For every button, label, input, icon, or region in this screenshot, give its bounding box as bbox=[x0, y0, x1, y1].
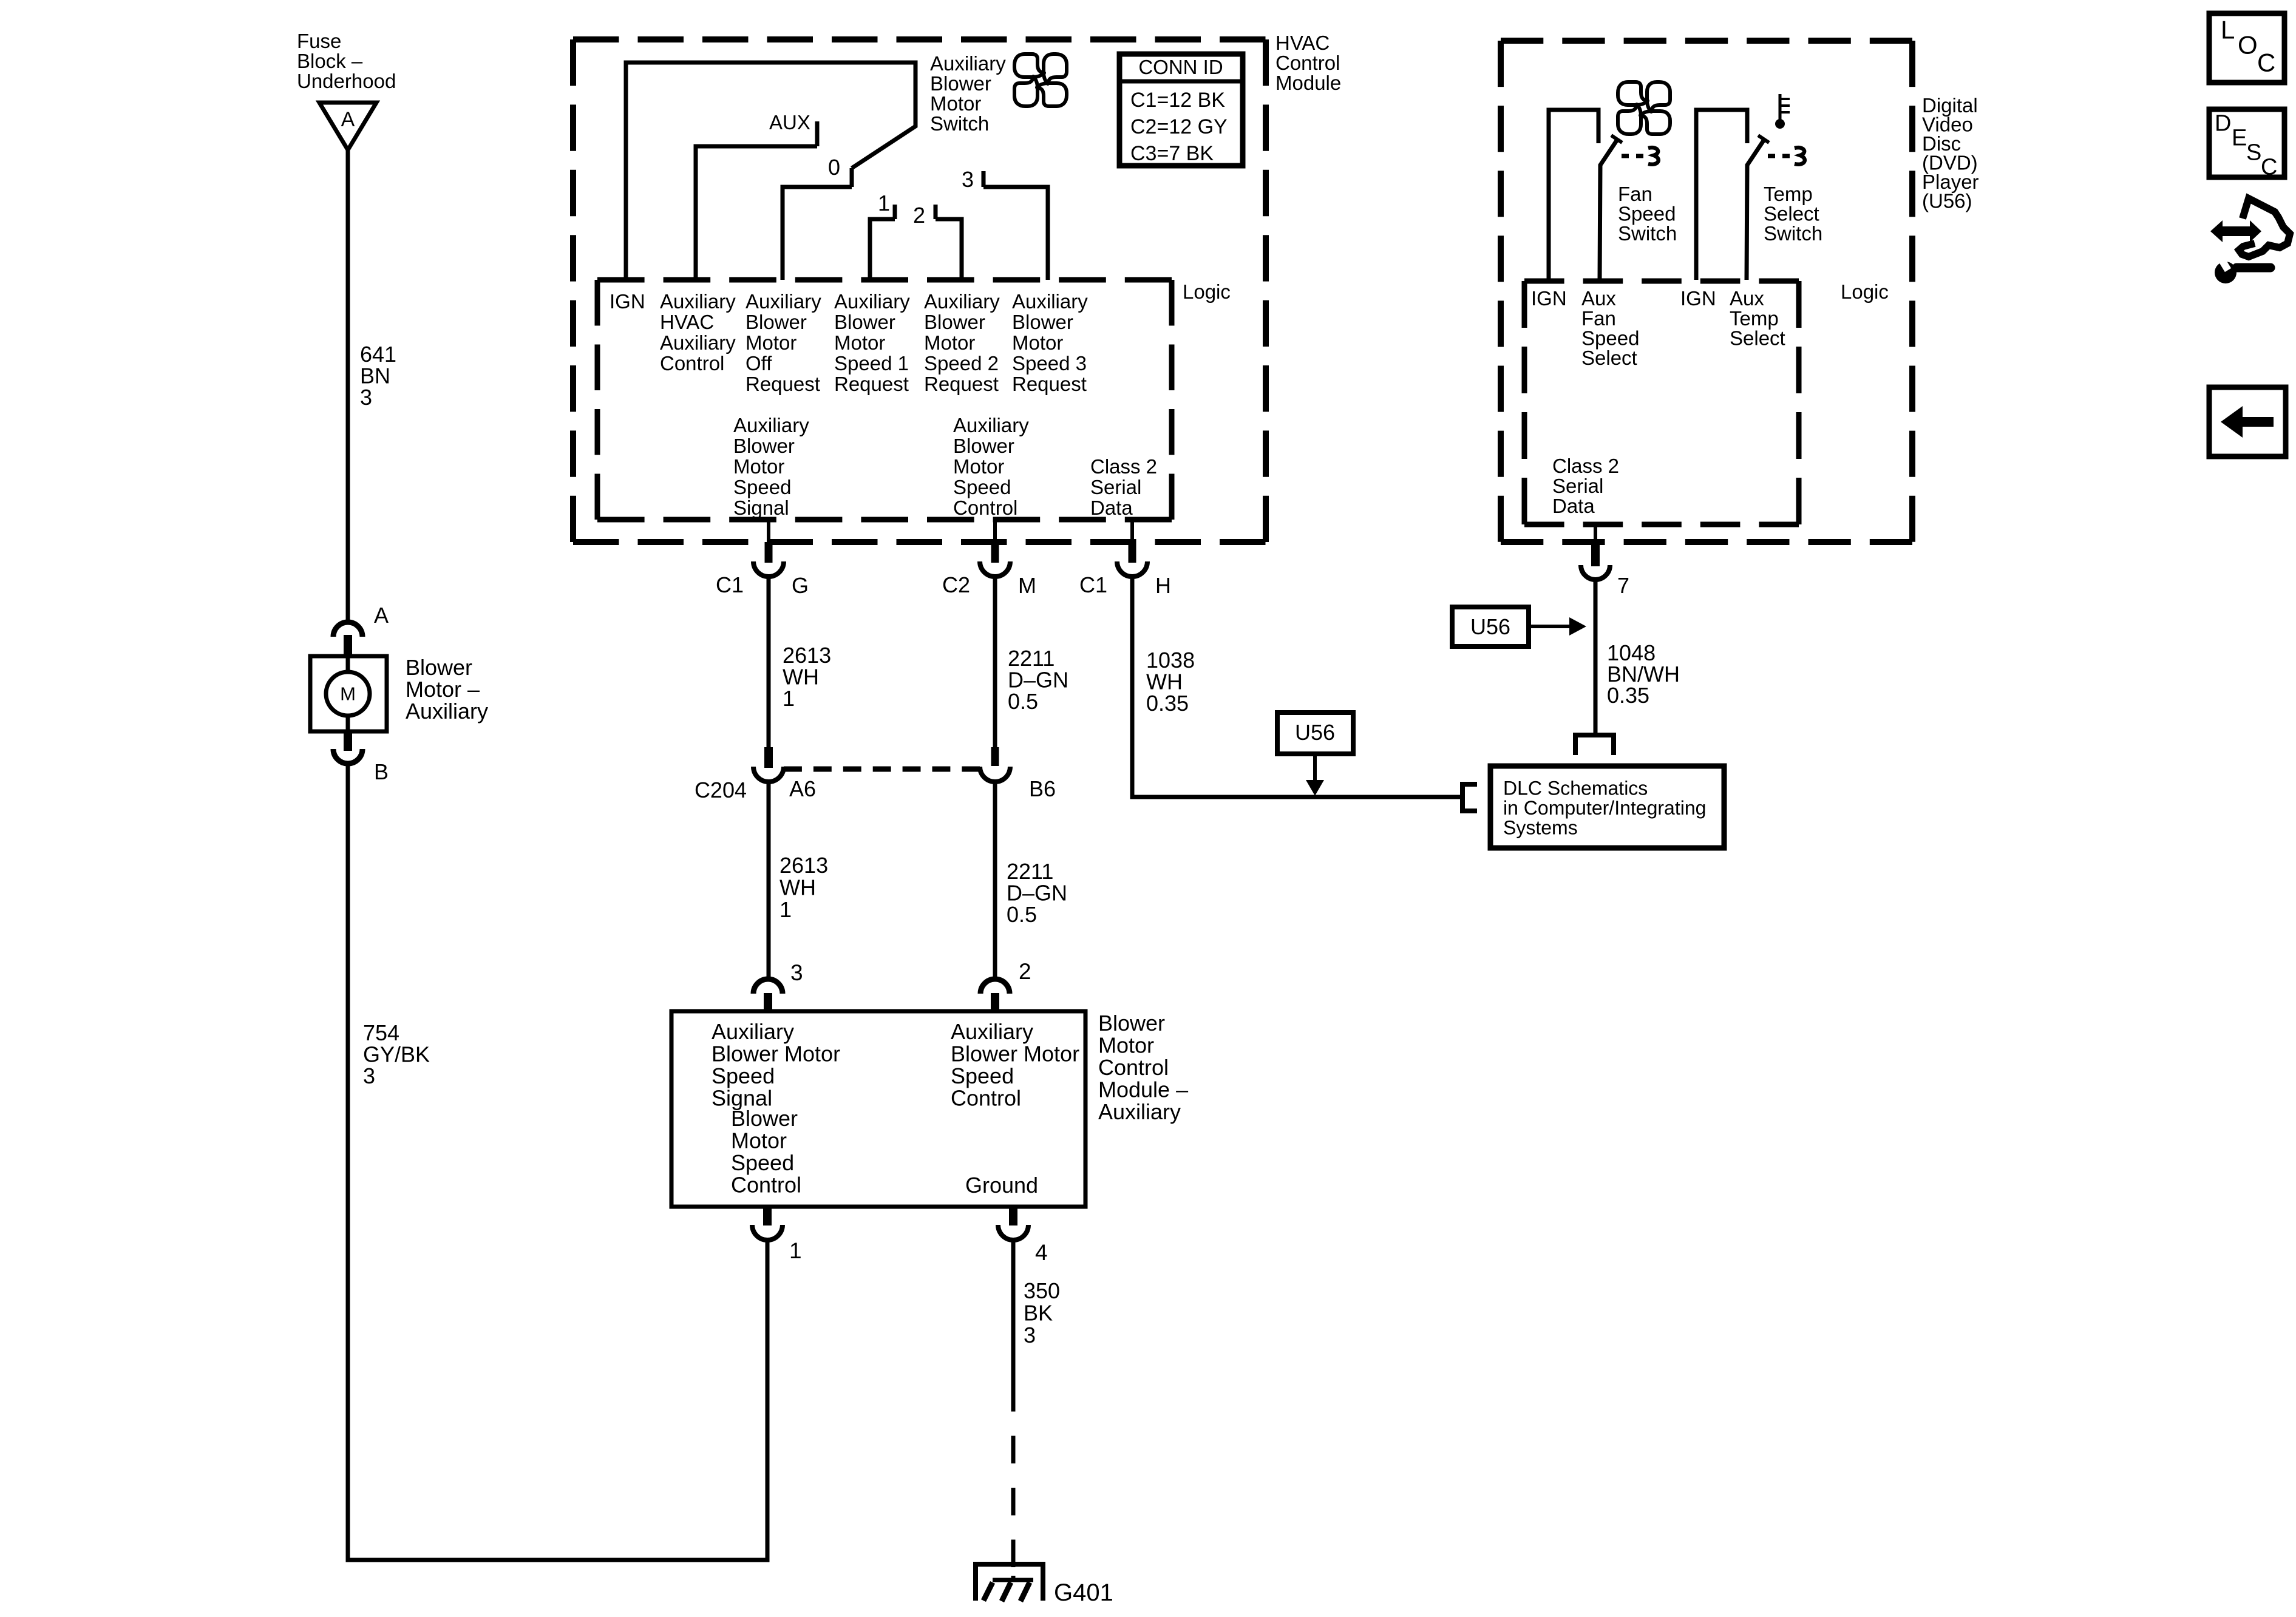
wire 2211 D-GN 0.5 from pin M to C204 B6 bbox=[993, 577, 997, 747]
logic block dashed box (DVD) bbox=[1524, 279, 1799, 284]
wire 641 BN 3 from fuse block to blower motor connector A bbox=[346, 150, 350, 623]
svg-text:AuxiliaryBlower MotorSpeedSign: AuxiliaryBlower MotorSpeedSignal bbox=[712, 1019, 840, 1111]
fan icon (auxiliary blower motor switch) bbox=[1014, 54, 1067, 106]
svg-text:FuseBlock –Underhood: FuseBlock –Underhood bbox=[297, 30, 396, 92]
HVAC pin C2-M (Auxiliary Blower Motor Speed Control) bbox=[942, 520, 1036, 598]
svg-text:Ground: Ground bbox=[965, 1173, 1038, 1198]
in-line connector C204 cavity A6 bbox=[753, 747, 784, 782]
svg-text:Class 2SerialData: Class 2SerialData bbox=[1090, 455, 1157, 519]
svg-text:3: 3 bbox=[790, 960, 803, 985]
svg-text:D: D bbox=[2215, 111, 2231, 137]
svg-text:AuxiliaryBlowerMotorOffRequest: AuxiliaryBlowerMotorOffRequest bbox=[746, 290, 821, 395]
svg-text:641BN3: 641BN3 bbox=[360, 342, 396, 410]
switch contact AUX bbox=[696, 121, 817, 280]
DVD pin 7 (Class 2 Serial Data) bbox=[1581, 523, 1610, 580]
logic block dashed box (HVAC) bbox=[597, 277, 1172, 283]
svg-text:Logic: Logic bbox=[1183, 280, 1231, 303]
DLC schematics reference box bbox=[1490, 766, 1724, 848]
connector B of blower motor bbox=[333, 731, 362, 764]
svg-text:C1: C1 bbox=[1079, 572, 1107, 597]
svg-text:C: C bbox=[2257, 49, 2275, 77]
power feed triangle A (Fuse Block - Underhood) bbox=[319, 103, 376, 150]
svg-text:C: C bbox=[2261, 155, 2277, 180]
module pin 1 connector bbox=[752, 1207, 783, 1240]
in-line connector C204 cavity B6 bbox=[980, 747, 1010, 782]
svg-text:1: 1 bbox=[789, 1238, 802, 1263]
svg-text:4: 4 bbox=[1035, 1240, 1048, 1265]
svg-text:U56: U56 bbox=[1470, 614, 1510, 639]
module pin 2 connector bbox=[980, 979, 1010, 1011]
svg-text:DigitalVideoDisc(DVD)Player(U5: DigitalVideoDisc(DVD)Player(U56) bbox=[1922, 94, 1979, 212]
service info icon (arrows and wrench) bbox=[2210, 198, 2290, 283]
svg-text:AuxiliaryBlower MotorSpeedCont: AuxiliaryBlower MotorSpeedControl bbox=[951, 1019, 1079, 1111]
wire 1048 BN/WH 0.35 from DVD pin 7 to DLC bbox=[1594, 580, 1598, 735]
connector A of blower motor bbox=[333, 622, 362, 656]
svg-text:A: A bbox=[341, 108, 355, 131]
svg-text:754GY/BK3: 754GY/BK3 bbox=[363, 1020, 430, 1088]
svg-text:S: S bbox=[2246, 140, 2261, 166]
svg-text:Logic: Logic bbox=[1841, 280, 1889, 303]
svg-text:IGN: IGN bbox=[1531, 287, 1567, 310]
blower motor - auxiliary M1 bbox=[310, 656, 387, 731]
fan icon (fan speed switch) bbox=[1618, 82, 1670, 134]
svg-text:2211D–GN0.5: 2211D–GN0.5 bbox=[1007, 859, 1067, 927]
HVAC pin C1-H (Class 2 Serial Data) bbox=[1079, 520, 1171, 598]
DLC bracket connector bbox=[1462, 784, 1477, 811]
U56 reference box (lower) bbox=[1277, 713, 1353, 754]
U56 arrow to wire 1048 bbox=[1529, 617, 1586, 636]
svg-text:7: 7 bbox=[1617, 573, 1629, 598]
svg-text:IGN: IGN bbox=[610, 290, 645, 313]
svg-text:E: E bbox=[2232, 126, 2247, 151]
CONN ID table bbox=[1119, 54, 1243, 166]
svg-text:Class 2SerialData: Class 2SerialData bbox=[1552, 455, 1619, 517]
U56 reference box (upper) bbox=[1452, 607, 1529, 646]
thermometer icon (temp select switch) bbox=[1775, 94, 1790, 129]
svg-text:2613WH1: 2613WH1 bbox=[783, 643, 831, 711]
DVD player dashed box (U56) bbox=[1501, 38, 1912, 44]
current return bracket into DLC bbox=[1575, 735, 1614, 755]
temp select switch S2 bbox=[1696, 110, 1769, 280]
svg-text:FanSpeedSwitch: FanSpeedSwitch bbox=[1618, 183, 1677, 245]
svg-text:C2: C2 bbox=[942, 572, 970, 597]
svg-text:AuxTempSelect: AuxTempSelect bbox=[1730, 287, 1785, 349]
svg-text:A6: A6 bbox=[789, 776, 816, 801]
svg-text:1038WH0.35: 1038WH0.35 bbox=[1146, 648, 1195, 716]
svg-text:AuxiliaryBlowerMotorSpeed 3Req: AuxiliaryBlowerMotorSpeed 3Request bbox=[1012, 290, 1088, 395]
module pin 3 connector bbox=[753, 979, 783, 1011]
temp select switch linkage curl bbox=[1795, 147, 1805, 164]
fan speed switch linkage dashes bbox=[1622, 154, 1647, 158]
rotary switch wiper from feed to position 0 bbox=[626, 63, 915, 280]
svg-text:B6: B6 bbox=[1029, 776, 1056, 801]
svg-text:C1: C1 bbox=[716, 572, 744, 597]
switch contact 3 bbox=[983, 171, 1048, 280]
svg-text:2211D–GN0.5: 2211D–GN0.5 bbox=[1008, 646, 1068, 714]
switch contact 0 bbox=[783, 168, 852, 280]
svg-text:1: 1 bbox=[878, 191, 890, 215]
svg-text:IGN: IGN bbox=[1680, 287, 1716, 310]
svg-text:AuxiliaryBlowerMotorSpeed 1Req: AuxiliaryBlowerMotorSpeed 1Request bbox=[834, 290, 910, 395]
HVAC control module dashed box bbox=[573, 36, 1266, 42]
svg-text:AuxiliaryBlowerMotorSpeed 2Req: AuxiliaryBlowerMotorSpeed 2Request bbox=[924, 290, 1000, 395]
wire 2211 D-GN 0.5 from B6 to module pin 2 bbox=[993, 782, 997, 979]
svg-text:2613WH1: 2613WH1 bbox=[779, 853, 828, 922]
svg-text:AUX: AUX bbox=[769, 111, 810, 134]
svg-text:AuxiliaryBlowerMotorSpeedSigna: AuxiliaryBlowerMotorSpeedSignal bbox=[733, 414, 809, 519]
svg-text:3: 3 bbox=[962, 167, 974, 192]
switch contact 2 bbox=[936, 205, 962, 280]
svg-text:HVACControlModule: HVACControlModule bbox=[1275, 32, 1341, 94]
svg-text:CONN ID: CONN ID bbox=[1138, 56, 1223, 78]
svg-text:DLC Schematicsin Computer/Inte: DLC Schematicsin Computer/IntegratingSys… bbox=[1503, 777, 1706, 838]
svg-text:U56: U56 bbox=[1295, 720, 1335, 745]
wire 350 BK 3 from module pin 4 to G401 bbox=[1011, 1240, 1016, 1582]
svg-text:O: O bbox=[2238, 31, 2258, 59]
ground G401 symbol bbox=[976, 1564, 1043, 1601]
svg-text:G401: G401 bbox=[1054, 1579, 1113, 1606]
LOC icon box bbox=[2209, 13, 2284, 83]
svg-text:1048BN/WH0.35: 1048BN/WH0.35 bbox=[1607, 640, 1680, 708]
wire 2613 WH 1 from pin G to C204 A6 bbox=[767, 577, 771, 747]
fan speed switch S1 bbox=[1549, 110, 1622, 280]
temp select switch linkage dashes bbox=[1768, 154, 1793, 158]
svg-text:L: L bbox=[2221, 16, 2235, 44]
svg-text:AuxiliaryBlowerMotorSwitch: AuxiliaryBlowerMotorSwitch bbox=[930, 52, 1006, 135]
svg-text:C1=12 BKC2=12 GYC3=7 BK: C1=12 BKC2=12 GYC3=7 BK bbox=[1130, 89, 1228, 165]
svg-text:C204: C204 bbox=[695, 778, 747, 802]
svg-text:B: B bbox=[374, 759, 389, 784]
wire 1038 WH 0.35 from pin H to DLC bbox=[1132, 577, 1462, 797]
svg-text:M: M bbox=[1018, 573, 1036, 598]
svg-text:2: 2 bbox=[1019, 959, 1031, 984]
svg-text:BlowerMotorControlModule –Auxi: BlowerMotorControlModule –Auxiliary bbox=[1098, 1011, 1188, 1124]
switch contact 1 bbox=[870, 205, 895, 280]
svg-text:TempSelectSwitch: TempSelectSwitch bbox=[1764, 183, 1822, 245]
svg-text:AuxiliaryBlowerMotorSpeedContr: AuxiliaryBlowerMotorSpeedControl bbox=[953, 414, 1029, 519]
svg-text:350BK3: 350BK3 bbox=[1024, 1278, 1060, 1347]
wire 754 GY/BK 3 from blower motor to module pin 1 bbox=[348, 764, 767, 1560]
DESC icon box bbox=[2209, 109, 2284, 180]
U56 arrow to wire 1038 bbox=[1306, 754, 1324, 796]
svg-text:M: M bbox=[340, 683, 356, 705]
svg-text:G: G bbox=[792, 573, 809, 598]
svg-text:BlowerMotorSpeedControl: BlowerMotorSpeedControl bbox=[731, 1106, 801, 1198]
C204 connector dashed tie line bbox=[784, 767, 980, 772]
blower motor control module - auxiliary box bbox=[671, 1011, 1085, 1207]
svg-text:0: 0 bbox=[828, 155, 840, 180]
svg-text:AuxFanSpeedSelect: AuxFanSpeedSelect bbox=[1581, 287, 1639, 369]
svg-text:BlowerMotor –Auxiliary: BlowerMotor –Auxiliary bbox=[406, 655, 488, 724]
HVAC pin C1-G (Auxiliary Blower Motor Speed Signal) bbox=[716, 520, 809, 598]
back arrow icon box bbox=[2209, 387, 2286, 456]
svg-text:A: A bbox=[374, 603, 389, 628]
wire 2613 WH 1 from A6 to module pin 3 bbox=[767, 782, 771, 979]
svg-text:2: 2 bbox=[913, 203, 925, 228]
svg-text:H: H bbox=[1155, 573, 1171, 598]
fan speed switch linkage curl bbox=[1648, 147, 1659, 164]
svg-text:AuxiliaryHVACAuxiliaryControl: AuxiliaryHVACAuxiliaryControl bbox=[660, 290, 736, 375]
module pin 4 connector bbox=[998, 1207, 1028, 1240]
